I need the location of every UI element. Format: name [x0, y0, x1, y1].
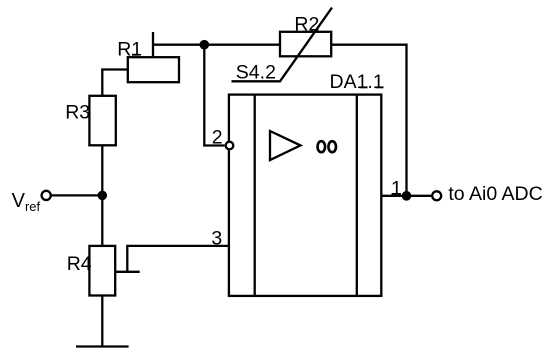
serif foot of digit 1 in R1	[132, 54, 139, 56]
svg-text:DA1.1: DA1.1	[330, 71, 384, 93]
svg-text:R2: R2	[294, 14, 319, 36]
svg-text:2: 2	[212, 126, 223, 148]
wire top horizontal	[153, 44, 280, 46]
resistor R4	[89, 246, 115, 296]
op-amp DA1.1 body	[229, 95, 381, 296]
svg-text:R4: R4	[67, 253, 92, 275]
terminal output circle	[432, 191, 441, 200]
op-amp inner line left	[254, 95, 256, 296]
pin 2 inversion bubble	[226, 142, 234, 150]
resistor R4 wiper bar	[115, 271, 140, 273]
ground	[76, 345, 129, 347]
wire output	[381, 195, 431, 197]
wire R1 left lead to R3	[102, 70, 128, 96]
resistor R2	[280, 32, 331, 57]
resistor R1	[128, 57, 179, 82]
resistor R3	[89, 96, 115, 146]
terminal Vref circle	[42, 191, 51, 200]
resistor R2 adjustment arrow with S4.2 link	[232, 8, 333, 82]
wire ground lead	[101, 296, 103, 347]
svg-text:R1: R1	[117, 39, 142, 61]
wire R3 to R4	[101, 145, 103, 246]
node A junction dot	[200, 40, 210, 50]
wire R2 right to output node	[331, 45, 406, 196]
node output junction dot	[402, 191, 412, 201]
resistor R1 tap wire	[152, 32, 154, 58]
wire Vref lead	[52, 194, 102, 196]
svg-text:R3: R3	[65, 102, 90, 124]
svg-text:S4.2: S4.2	[236, 62, 276, 84]
wire R4 wiper to pin 3	[127, 246, 229, 272]
wire node A to pin 2	[204, 45, 224, 146]
serif foot of pin 1 digit	[392, 193, 401, 195]
node Vref junction dot	[98, 191, 108, 201]
svg-text:3: 3	[211, 228, 222, 250]
op-amp infinity gain symbol	[318, 141, 326, 152]
op-amp inner line right	[356, 95, 358, 296]
serif foot of second digit 1 in DA1.1	[376, 86, 384, 88]
serif foot of first digit 1 in DA1.1	[360, 86, 368, 88]
svg-text:1: 1	[391, 178, 402, 200]
svg-text:to Ai0 ADC: to Ai0 ADC	[448, 183, 542, 205]
op-amp triangle symbol	[270, 131, 301, 160]
